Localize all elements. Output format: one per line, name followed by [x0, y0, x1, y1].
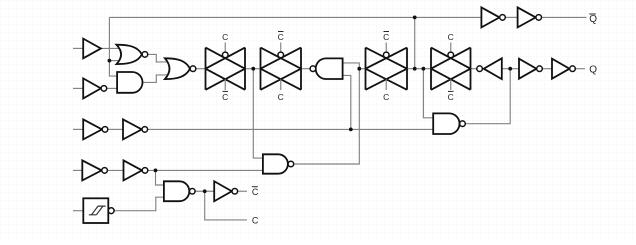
- wire node E to U10: [510, 68, 519, 70]
- TG2 top control wire: [280, 43, 282, 53]
- inverter U10: [519, 59, 542, 79]
- wire NOR1 out to NOR2 top input: [148, 54, 170, 62]
- inverter U16: [123, 119, 148, 139]
- nor gate U3: [117, 45, 148, 64]
- label output Q: [589, 64, 597, 75]
- svg-text:C: C: [222, 92, 228, 102]
- inverter U17: [82, 160, 107, 180]
- transmission gate TG1: [206, 48, 246, 90]
- wire U13 out to Qbar: [541, 16, 586, 18]
- TG2 top control bubble: [278, 52, 284, 58]
- wire NOR2 out to TG1: [197, 68, 206, 70]
- svg-text:C: C: [222, 32, 228, 42]
- node C slave input: [413, 67, 417, 71]
- node D: [422, 67, 426, 71]
- wire node C up to top feedback wire: [414, 17, 416, 68]
- buffer U1: [83, 39, 101, 59]
- node row1 tap: [349, 127, 353, 131]
- TG4 bottom control wire: [450, 79, 452, 90]
- svg-text:C: C: [252, 215, 259, 225]
- wire U9 input from node E: [502, 68, 510, 70]
- TG1 top control wire: [224, 43, 226, 53]
- label TG2 bottom label C: [278, 92, 284, 102]
- label TG3 bottom label C: [383, 92, 389, 102]
- node F internal clock node: [203, 189, 207, 193]
- wire node B to TG3: [359, 68, 365, 70]
- wire U12 out to U13: [505, 16, 517, 18]
- node B: [357, 67, 361, 71]
- node top wire tap: [413, 16, 417, 20]
- and gate U4: [117, 72, 142, 93]
- wire AND1 out to NOR2 bottom input: [143, 75, 170, 83]
- wire U6 bottom input down to row1 wire: [343, 75, 351, 129]
- wire U6 top input to node B: [343, 63, 360, 69]
- svg-text:C: C: [383, 32, 389, 42]
- wire U7 output up to node B: [294, 69, 359, 164]
- svg-text:C: C: [278, 92, 284, 102]
- wire row2 wire a: [107, 169, 123, 171]
- label TG3 top label C~: [383, 32, 389, 43]
- inverter U2: [83, 78, 107, 98]
- wire I1 out to AND1 bottom input: [107, 87, 117, 89]
- TG1 bottom control wire: [224, 79, 226, 90]
- nor gate U4b: [165, 58, 196, 79]
- transmission gate TG3: [366, 48, 408, 90]
- TG3 top control bubble: [383, 52, 389, 58]
- node row2 tap: [154, 169, 158, 173]
- nand gate U7: [263, 154, 294, 173]
- inverter U12: [481, 7, 505, 27]
- wire input to inverter U2: [73, 87, 83, 89]
- wire node E down to U8 output: [465, 69, 510, 124]
- schmitt trigger U19: [83, 198, 114, 223]
- inverter U18: [124, 160, 148, 180]
- wire TG2 to U6 output bubble: [301, 68, 310, 70]
- wire feedback vertical to NOR1 and AND1: [109, 17, 117, 76]
- wire input row1: [73, 128, 83, 130]
- node A feedback-NOR1: [108, 59, 112, 63]
- nand gate U8: [433, 113, 465, 134]
- wire U14 out to Cbar label: [238, 190, 247, 192]
- inverter U11: [552, 59, 575, 79]
- svg-text:Q: Q: [589, 64, 597, 75]
- TG4 top control bubble: [448, 52, 454, 58]
- wire node D down to U8 top input: [423, 69, 433, 118]
- svg-text:C: C: [448, 92, 454, 102]
- label TG1 bottom label C~: [222, 91, 228, 102]
- svg-text:C: C: [448, 32, 454, 42]
- wire row2 wire to U7 bottom input: [148, 169, 263, 171]
- TG1 top control bubble: [222, 52, 228, 58]
- inverter U13: [518, 7, 542, 27]
- nand gate U6 (left facing, master feedback): [310, 58, 343, 79]
- wire input clock to schmitt: [73, 210, 83, 212]
- transmission gate TG2: [261, 48, 302, 90]
- transmission gate TG4: [431, 48, 471, 90]
- label TG1 top label C: [222, 32, 228, 42]
- wire TG1 to TG2: [245, 68, 261, 70]
- inverter U9 (left facing, slave feedback): [477, 58, 502, 79]
- wire B1 out to NOR1 top input: [101, 47, 120, 49]
- inverter U14: [214, 181, 237, 201]
- wire U5 out to U14: [195, 190, 214, 192]
- label TG4 top label C: [448, 32, 454, 42]
- label output Qbar: [589, 14, 597, 25]
- label internal C: [252, 215, 259, 225]
- wire row2 node down to U5 top input: [156, 170, 164, 185]
- label TG4 bottom label C~: [448, 91, 454, 102]
- TG4 top control wire: [450, 43, 452, 53]
- wire row1 wire long: [147, 128, 433, 130]
- node master latch node: [251, 67, 255, 71]
- wire row1 wire to U8 bottom input: [108, 128, 123, 130]
- svg-text:C: C: [278, 32, 284, 42]
- wire schmitt out to U5 bottom input: [114, 197, 164, 211]
- inverter U15: [83, 119, 108, 139]
- svg-text:C: C: [252, 187, 259, 197]
- wire NOR1 bottom input from node: [109, 60, 120, 62]
- wire U11 out to Q: [575, 68, 585, 70]
- svg-text:C: C: [383, 92, 389, 102]
- wire master node down to U7 top input: [253, 69, 263, 158]
- nand gate U5: [164, 181, 195, 201]
- TG3 top control wire: [385, 43, 387, 53]
- wire U10 out to U11: [542, 68, 552, 70]
- wire input D top: [73, 47, 83, 49]
- node E slave node: [508, 67, 512, 71]
- wire node F down to C label: [205, 191, 247, 220]
- wire TG4 to U9 output bubble: [471, 68, 477, 70]
- label TG2 top label C~: [278, 32, 284, 43]
- wire TG3 to TG4: [407, 68, 431, 70]
- label internal Cbar: [252, 187, 259, 197]
- wire input row2: [73, 169, 82, 171]
- svg-text:Q: Q: [589, 14, 597, 25]
- wire top feedback wire: [109, 16, 481, 18]
- TG2 bottom control wire: [280, 79, 282, 90]
- TG3 bottom control wire: [385, 79, 387, 90]
